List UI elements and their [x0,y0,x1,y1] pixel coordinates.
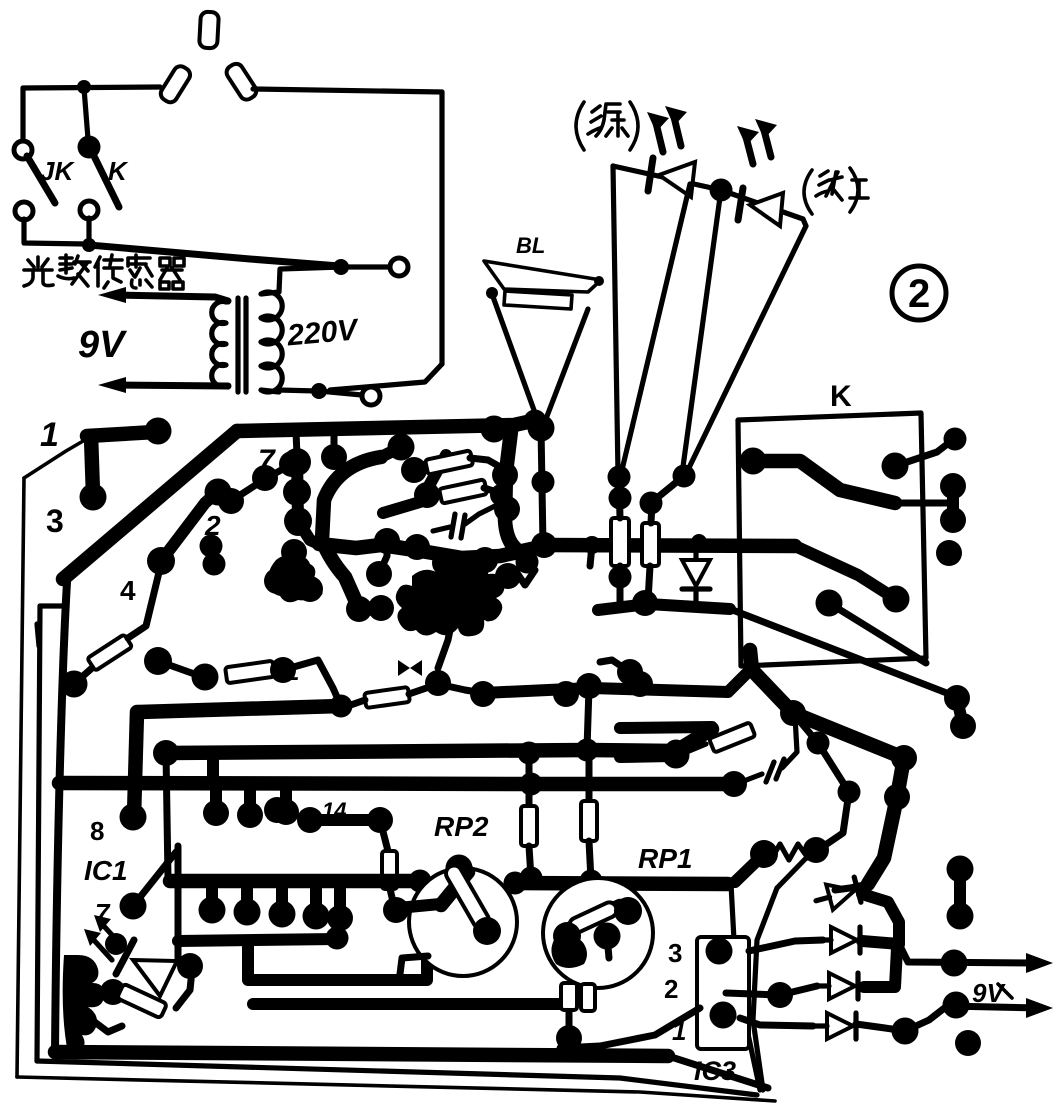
pad right bottom single [955,1030,981,1056]
SECTION-TOPLEFT [14,12,442,405]
wire 9V top lead with arrow [112,295,228,301]
speaker magnet bar [504,291,572,309]
pad K box bottom-left [816,590,843,617]
transformer 220V winding [261,292,282,392]
speaker cone right edge [544,309,588,424]
pad K box top-left [740,448,767,475]
node 220V bottom junction [311,383,327,399]
ink squiggle blob left [63,955,105,1053]
trace board top edge [237,421,532,431]
bridge diode VD5 [813,1013,856,1039]
pad on top trace right [481,416,508,443]
pad under top trace 3 [388,434,415,461]
switch K arm [93,154,119,207]
trace below mess [438,620,452,668]
RP2 wiper slot [443,863,492,932]
board bottom line 2 [37,1061,757,1095]
junction dots on D2 [780,700,806,726]
wire diode5 right to arrow2 [856,1024,905,1031]
pad row left [264,797,290,823]
pad on speaker wire [532,471,555,494]
big curve trace upper mid [322,457,381,604]
pads on y694 right [617,659,643,685]
IC3 pin3 pad [706,938,733,965]
dumbbell right mid [944,685,970,711]
resistor R horizontal mid [364,687,410,708]
SECTION-SPEAKER-LED [484,102,946,558]
wire to transformer primary junction [89,245,339,266]
big pad left chain [144,647,172,675]
wire switch bottoms [24,219,86,244]
SECTION-BOTTOM [398,590,1053,1090]
IC3 box [697,937,749,1049]
pad IC1 pin8 [120,804,147,831]
wire resistor1 bottom lead [617,566,624,604]
trace top-left T bar [87,432,155,436]
capacitor small (two bars) [451,514,455,537]
relay K box outline [738,413,926,666]
zigzag squiggle between C and D [772,844,808,860]
wire pair triangle 1 right edge [621,184,690,474]
board outline top-left diagonal [24,437,90,478]
capacitor on diagonal [736,774,762,784]
pad [192,664,219,691]
switch JK arm [27,156,55,203]
wire right vertical of mains loop [439,92,444,364]
wire pair triangle 2 left edge [682,190,721,474]
blob bar [264,568,290,594]
svg-text:1: 1 [286,659,299,686]
svg-text:3: 3 [46,503,64,539]
svg-text:BL: BL [516,233,545,258]
wire triangle2 tail [651,476,684,523]
node D blob [803,837,829,863]
wire diode3 right vertical [864,948,897,987]
resistor vertical mid 2 [586,752,593,801]
right-side vertical chain [505,431,516,549]
wire top loop left [23,87,160,88]
RP1 bottom pad [556,1025,582,1051]
resistor R6 diagonal white [709,722,755,752]
svg-text:8: 8 [90,816,104,846]
trace y784 right end dot [721,771,747,797]
node switch bottom junction [82,238,96,252]
transformer core bar right [243,298,248,392]
diode VD near K box [682,541,710,606]
wire pair triangle 1 left edge [613,166,618,474]
label (绿) green [576,102,638,150]
lamp contact 2 (left slanted) [158,64,193,105]
RP2 lead [400,956,428,974]
bridge diode VD2 [813,877,861,913]
speaker cone left edge [492,294,539,424]
squiggle marks right of mess [505,570,535,585]
9V output arrow 2 [905,1006,1040,1031]
trace y880 left [170,874,413,889]
svg-text:4: 4 [120,575,136,606]
pad K box top-right [882,453,909,480]
LED VL1 (green) [648,158,653,191]
RP2 bottom blob [473,917,501,945]
speaker rim left dot [486,287,498,299]
LED VL2 (red) [738,188,743,220]
tick mark left edge [37,624,39,646]
trace y756 [620,756,672,757]
RP1 black wedge [551,937,587,968]
transformer 9V winding [212,301,228,387]
node top edge dot [524,410,547,433]
ink blob cluster left [269,555,317,602]
wire pair triangle 2 right edge [685,226,806,476]
plug terminal top [390,258,408,276]
resistor R white horizontal left [225,661,275,684]
trace mid horizontal into K box [544,545,795,546]
resistor vertical mid (RP2 right) [526,755,533,806]
SECTION-KBOX [544,380,967,666]
band left edge [731,884,760,1090]
trace K box internal top [753,461,895,503]
dumbbell mid left [281,539,307,565]
dumbbell right lower [947,856,974,883]
wire K bottom stub [86,218,91,244]
pad and bowtie [425,670,451,696]
potentiometer RP1 body [543,878,653,988]
pad below triangle1 [608,466,631,489]
SECTION-PCB-TRACES [37,416,734,1054]
band right edge [753,888,777,1090]
node C blob [750,840,778,868]
RP1 wiper black bar [563,906,620,932]
wire 9V bottom lead with arrow [112,385,228,386]
speaker horn rim [484,261,601,292]
svg-text:IC3: IC3 [694,1056,736,1086]
pin pads row on y880 [199,897,226,924]
wire triangle1 tail to resistor [619,476,620,518]
pad speaker wire bottom [531,532,557,558]
IC3 pin1 pad [710,1002,737,1029]
switch K top contact [78,136,101,159]
pads upper mid extra [252,465,278,491]
pads mess bottom [346,596,372,622]
bridge diode VD3 [817,927,860,953]
trace y750 long [166,729,712,753]
trace pad up diagonal [161,493,216,561]
trace pin1 down-left [560,1008,700,1048]
pin dumbbells below y783 [203,800,229,826]
wire loop bottom to 220V junction [330,364,442,390]
pad dumbbell right b [940,507,966,533]
pad below triangle2 [673,465,696,488]
x mark [306,583,320,595]
band top right link [777,852,812,888]
lamp contact 1 (bulb socket pin, vertical) [199,12,219,49]
trace diagonal to right dumbbell [730,609,957,697]
pad resistor1 bottom [609,566,632,589]
switch JK bottom contact [15,202,33,220]
resistor R upper middle 1 [414,465,428,470]
vertical link y688-y750 [587,688,589,748]
trace y880 right [512,883,728,884]
trace T bar stem [91,436,93,494]
wire LED top link [613,166,721,190]
svg-text:9V: 9V [78,324,127,366]
node junction top [77,80,91,94]
resistor R white diagonal left [87,634,132,671]
trace left vertical [55,582,67,1052]
svg-text:1: 1 [40,416,59,454]
LED green light arrows [656,123,663,152]
node speaker wire junction [528,415,555,442]
svg-text:K: K [108,156,129,186]
switch K bottom contact [80,201,98,219]
pad above resistor2 [640,492,663,515]
junction dots y880 [409,870,432,893]
svg-text:RP2: RP2 [434,811,489,842]
pad T bar right [145,418,172,445]
trace y712 [139,706,341,712]
svg-text:2: 2 [664,974,678,1004]
trace corner to pad in box [795,546,891,596]
junction dots on mid trace [583,536,601,554]
trace diagonal from pad to box corner [829,603,926,663]
wire stub to plug terminal bottom [319,391,362,395]
wire 220V winding top lead [279,267,341,292]
trace y605 [598,604,730,610]
pad IC1 pin7 [120,893,147,920]
node LED junction [710,179,733,202]
wire diode4 left [740,1018,813,1026]
plug terminal bottom [362,387,380,405]
ink blob cluster center [396,557,505,636]
wire resistor2 bottom lead [648,566,650,601]
trace y783 full [59,783,734,784]
svg-text:RP1: RP1 [638,843,692,874]
svg-text:3: 3 [668,938,682,968]
resistor R vertical 1 (white body on trace) [611,518,629,566]
trace diag from pin7 [133,852,176,906]
trace y1004 [253,998,562,1010]
node 220V top junction [333,259,349,275]
pads photodiode [105,933,127,955]
trace vertical to IC1 pin8 [134,712,137,816]
bridge diode VD4 [815,973,858,999]
svg-text:220V: 220V [285,313,362,352]
board bottom line 3 outer [17,1077,775,1101]
trace pin2 to pad right [726,993,780,995]
dumbbell bar top [297,455,298,521]
lamp contact 3 (right slanted) [224,61,259,102]
pad under top trace 2 [321,444,347,470]
trace pin3 to diode2 [749,940,823,951]
board inner edge short horizontal [40,603,67,608]
M zigzag right [793,713,849,850]
board bottom closing diagonal [668,1056,768,1088]
9V output arrow 1 [899,944,1040,963]
trace pad to corner pad [895,442,950,466]
wire speaker to board [541,428,543,545]
pad cluster 2 [205,479,232,506]
resistor R vertical RP2 left [380,820,388,851]
transformer core bar left [235,298,240,392]
label (红) red [804,168,868,214]
trace y941 [178,939,337,941]
stub 783-750 [207,753,219,783]
svg-text:2: 2 [908,272,930,316]
trace y694 [483,688,591,693]
dumbbell bar [947,486,959,520]
resistor R vertical 2 [642,523,659,566]
pad dumbbell right a [940,473,966,499]
vertical from pad166 [166,753,168,878]
trace y694 right with corner [591,670,750,692]
pad K box bottom-right [883,586,910,613]
junction dot resistor top [518,742,541,765]
S-curve trace middle mess [319,544,536,558]
wire stub to plug terminal top [341,264,390,269]
RP2 feed trace [398,904,440,908]
trace D2 zigzag from K box [750,650,904,884]
white slot resistor below photodiode [117,984,167,1019]
trace chain from pad 1 (bottom-left resistor diagonal) [61,671,88,698]
board outline left edge outer [17,478,24,1077]
speaker rim right dot [594,276,604,286]
LED red light arrows [746,137,753,164]
label 光敏传感器 (photosensor) [24,255,184,289]
trace C down-left chunk [735,854,764,882]
wire diode1-2 right C link [862,894,899,944]
resistor R upper middle 2 [427,492,442,495]
RP2 top pad [446,855,473,882]
upper mid link traces [383,455,446,513]
pad T stem bottom [80,484,107,511]
trace y726 [620,727,712,728]
wire stub to switch K top [84,88,88,139]
label circled 2 (figure number) [892,266,946,320]
board outline left inner [37,606,40,1061]
pad scatter middle [285,510,311,536]
svg-text:JK: JK [40,156,75,186]
wire diode2 right [862,941,899,944]
svg-text:K: K [830,380,852,413]
trace big diagonal top-left [63,431,237,579]
potentiometer RP2 body [409,868,517,976]
wire LED2 link [721,190,803,219]
pad right of K box top [944,428,967,451]
svg-text:IC1: IC1 [84,855,128,886]
photodiode VD1 with arrows [133,960,177,996]
wire stub to switch JK top [20,88,25,142]
RP2 wiper black bar [441,872,468,905]
pads hanging from top trace [283,448,311,476]
RP1 wiper slot [567,900,619,935]
pad mid chain [147,547,175,575]
pad right column single [936,540,962,566]
svg-text:14: 14 [322,798,346,823]
wire LED2 down lead [803,219,806,226]
switch JK top contact [14,141,32,159]
wire diode3 left to pad [780,986,817,995]
RP1 pads [553,922,581,950]
wire diode1 left from D2 [835,884,868,890]
RP1 capacitor white slots below [561,983,577,1010]
wire 220V winding bottom lead [279,390,317,391]
board bottom trace thick [55,1052,668,1056]
SECTION-PCB-OUTLINE [17,410,775,1102]
trace K box exit right [895,500,949,507]
label 2 pads [200,535,223,558]
trace y980 L [248,941,427,980]
trace y820 short [310,814,380,826]
wire top loop right [253,89,442,92]
extra vertical links upper mid [298,521,319,544]
